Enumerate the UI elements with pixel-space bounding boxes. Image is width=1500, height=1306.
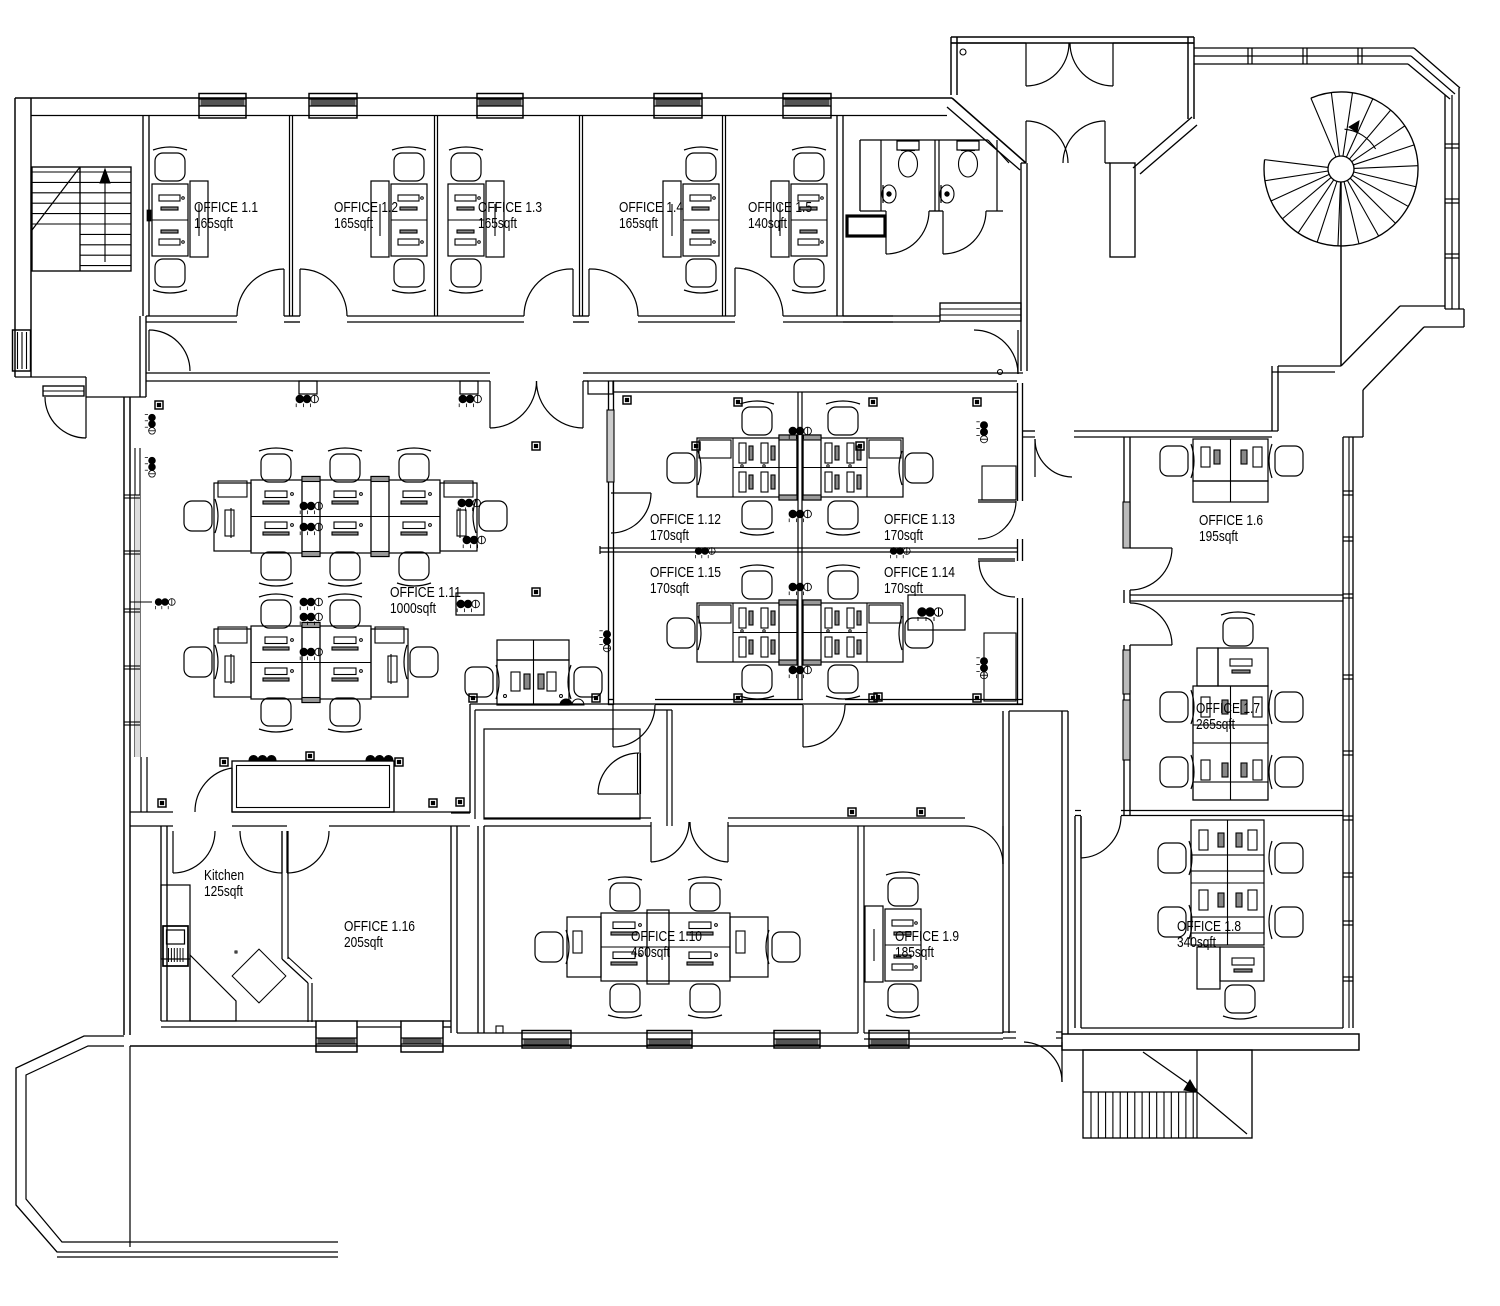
svg-text:1000sqft: 1000sqft — [390, 600, 437, 617]
svg-text:OFFICE 1.16: OFFICE 1.16 — [344, 918, 415, 935]
svg-text:OFFICE 1.4: OFFICE 1.4 — [619, 199, 683, 216]
svg-text:170sqft: 170sqft — [650, 580, 690, 597]
svg-text:205sqft: 205sqft — [344, 934, 384, 951]
svg-text:OFFICE 1.15: OFFICE 1.15 — [650, 564, 721, 581]
svg-text:340sqft: 340sqft — [1177, 934, 1217, 951]
svg-text:165sqft: 165sqft — [619, 215, 659, 232]
svg-text:170sqft: 170sqft — [650, 527, 690, 544]
svg-text:OFFICE 1.10: OFFICE 1.10 — [631, 928, 702, 945]
svg-text:OFFICE 1.11: OFFICE 1.11 — [390, 584, 461, 601]
svg-text:265sqft: 265sqft — [1196, 716, 1236, 733]
svg-text:165sqft: 165sqft — [334, 215, 374, 232]
svg-text:125sqft: 125sqft — [204, 883, 244, 900]
svg-text:OFFICE 1.8: OFFICE 1.8 — [1177, 918, 1241, 935]
svg-text:170sqft: 170sqft — [884, 580, 924, 597]
svg-text:OFFICE 1.5: OFFICE 1.5 — [748, 199, 812, 216]
svg-text:165sqft: 165sqft — [194, 215, 234, 232]
svg-text:185sqft: 185sqft — [895, 944, 935, 961]
svg-text:OFFICE 1.1: OFFICE 1.1 — [194, 199, 258, 216]
svg-text:195sqft: 195sqft — [1199, 528, 1239, 545]
svg-text:OFFICE 1.7: OFFICE 1.7 — [1196, 700, 1260, 717]
svg-text:140sqft: 140sqft — [748, 215, 788, 232]
svg-text:170sqft: 170sqft — [884, 527, 924, 544]
svg-text:165sqft: 165sqft — [478, 215, 518, 232]
svg-text:OFFICE 1.6: OFFICE 1.6 — [1199, 512, 1263, 529]
svg-text:OFFICE 1.2: OFFICE 1.2 — [334, 199, 398, 216]
svg-text:Kitchen: Kitchen — [204, 867, 244, 884]
svg-text:OFFICE 1.3: OFFICE 1.3 — [478, 199, 542, 216]
svg-text:OFFICE 1.13: OFFICE 1.13 — [884, 511, 955, 528]
svg-text:OFFICE 1.12: OFFICE 1.12 — [650, 511, 721, 528]
svg-text:OFFICE 1.14: OFFICE 1.14 — [884, 564, 955, 581]
svg-text:460sqft: 460sqft — [631, 944, 671, 961]
svg-text:OFFICE 1.9: OFFICE 1.9 — [895, 928, 959, 945]
